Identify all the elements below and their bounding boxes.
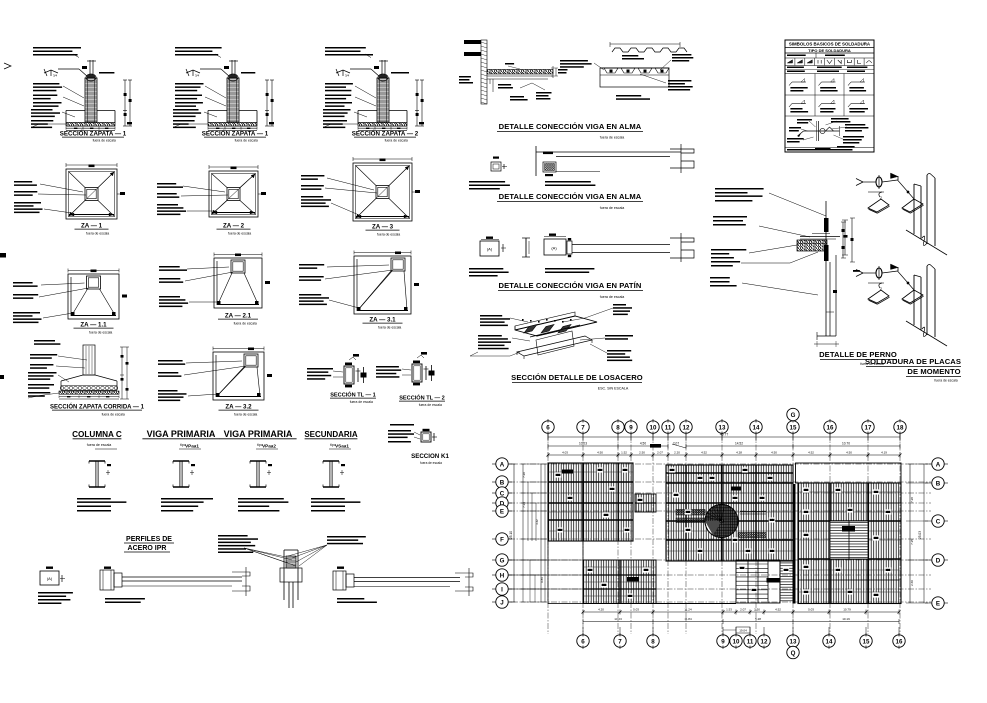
- svg-text:25.03: 25.03: [918, 531, 922, 539]
- svg-text:fuera de escala: fuera de escala: [377, 233, 400, 237]
- svg-text:3/4: 3/4: [195, 74, 200, 78]
- svg-text:SECCIÓN TL — 1: SECCIÓN TL — 1: [330, 391, 376, 399]
- svg-text:fuera de escala: fuera de escala: [420, 461, 442, 465]
- plate diamonds lower: [868, 290, 889, 303]
- svg-text:fuera de escala: fuera de escala: [228, 232, 251, 236]
- weld example cells: [814, 74, 816, 96]
- section VIGA PRIMARIA VPaa2: [219, 429, 296, 512]
- svg-text:10: 10: [650, 425, 657, 432]
- svg-text:J: J: [500, 600, 504, 607]
- svg-text:16: 16: [896, 639, 903, 646]
- column detail with welded plates: [218, 535, 366, 608]
- right dimension lines: [906, 464, 928, 603]
- black beam mark central: [731, 487, 741, 491]
- column of SECCIÓN ZAPATA — 1: [227, 78, 239, 122]
- stair landing bands left of circle: [676, 510, 705, 516]
- detail SECCIÓN TL — 2: [376, 352, 445, 407]
- annotations of ZA — 2: [157, 183, 176, 185]
- svg-text:14.52: 14.52: [735, 442, 743, 446]
- seccion zapata detail SECCIÓN ZAPATA — 1: [173, 47, 274, 143]
- svg-text:4.19: 4.19: [881, 451, 887, 455]
- svg-text:3.42: 3.42: [535, 519, 539, 525]
- svg-text:6: 6: [581, 639, 585, 646]
- zapata plan ZA — 3.1: [299, 251, 419, 330]
- svg-text:15: 15: [790, 425, 797, 432]
- spec text VPaa2: [238, 498, 284, 500]
- svg-text:1.53: 1.53: [726, 608, 732, 612]
- column vertical line: [825, 201, 827, 336]
- spec text VSaa1: [311, 498, 345, 500]
- weld symbol cells: [784, 58, 786, 66]
- annotations of ZA — 3: [301, 175, 324, 177]
- svg-text:45.77: 45.77: [720, 433, 729, 437]
- svg-text:ZA — 2: ZA — 2: [223, 223, 245, 230]
- bolt lower shank: [829, 262, 831, 336]
- annotations of SECCIÓN ZAPATA — 2: [325, 83, 353, 85]
- svg-text:F: F: [500, 537, 504, 544]
- svg-text:(A): (A): [551, 246, 557, 251]
- svg-text:5.03: 5.03: [808, 608, 814, 612]
- base plate: [797, 240, 827, 251]
- svg-text:4.28: 4.28: [736, 451, 742, 455]
- svg-text:1.52: 1.52: [621, 451, 627, 455]
- annotations of ZA — 2.1: [159, 266, 180, 268]
- svg-text:10: 10: [733, 639, 740, 646]
- zapata plan ZA — 3.2: [158, 347, 272, 417]
- svg-text:fuera de escala: fuera de escala: [234, 413, 257, 417]
- plate diamonds upper: [868, 199, 889, 212]
- svg-text:12: 12: [683, 425, 690, 432]
- beam mark black bar left block: [562, 470, 573, 474]
- svg-text:COLUMNA C: COLUMNA C: [72, 430, 122, 439]
- svg-text:7.20: 7.20: [522, 472, 526, 478]
- svg-text:VSaa1: VSaa1: [335, 444, 349, 449]
- spec text VPaa1: [161, 498, 213, 500]
- svg-text:14.23: 14.23: [614, 617, 622, 621]
- svg-text:D: D: [936, 558, 941, 565]
- svg-text:6: 6: [546, 425, 550, 432]
- break line upper: [906, 230, 947, 255]
- svg-text:fuera de escala: fuera de escala: [86, 232, 109, 236]
- svg-text:12: 12: [761, 639, 768, 646]
- seccion detalle de losacero isometric: [470, 304, 643, 391]
- svg-text:ZA — 1: ZA — 1: [81, 223, 103, 230]
- svg-text:H: H: [500, 573, 505, 580]
- svg-text:14: 14: [826, 639, 833, 646]
- svg-text:ZA — 3: ZA — 3: [372, 224, 394, 231]
- losacero deck section: [600, 67, 669, 69]
- svg-text:7: 7: [618, 639, 622, 646]
- framing plan: [492, 408, 948, 658]
- I-beam symbol: [89, 460, 105, 462]
- seccion zapata corrida 1: [28, 340, 145, 417]
- svg-text:4.52: 4.52: [701, 451, 707, 455]
- title soldadura de placas de momento: [865, 357, 961, 383]
- svg-text:fuera de escala: fuera de escala: [89, 331, 112, 335]
- sheet edge marks: [0, 253, 6, 258]
- svg-text:4.52: 4.52: [808, 451, 814, 455]
- svg-text:2.60: 2.60: [910, 580, 914, 586]
- stair opening right block: [830, 521, 868, 559]
- svg-text:4.50: 4.50: [597, 451, 603, 455]
- dimension lines of SECCIÓN ZAPATA — 2: [416, 80, 418, 126]
- soldadura placas isometric lower: [853, 264, 947, 346]
- dim bracket: [842, 220, 848, 255]
- section VIGA PRIMARIA VPaa1: [142, 429, 219, 512]
- svg-text:fuera de escala: fuera de escala: [235, 139, 258, 143]
- svg-text:fuera de escala: fuera de escala: [934, 379, 957, 383]
- beam under losacero: [527, 325, 583, 357]
- svg-text:A: A: [936, 462, 941, 469]
- svg-text:SIMBOLOS BASICOS DE SOLDADURA: SIMBOLOS BASICOS DE SOLDADURA: [789, 42, 871, 47]
- svg-text:3/4: 3/4: [345, 74, 350, 78]
- grid bubbles bottom: [577, 627, 905, 659]
- seccion zapata detail SECCIÓN ZAPATA — 1: [31, 47, 132, 143]
- svg-text:DETALLE CONECCIÓN VIGA EN ALMA: DETALLE CONECCIÓN VIGA EN ALMA: [499, 192, 642, 201]
- left corridor outline: [548, 541, 583, 604]
- column of SECCIÓN ZAPATA — 2: [377, 78, 389, 122]
- I-beam symbol VPaa2: [250, 460, 266, 462]
- svg-text:PERFILES DE: PERFILES DE: [126, 536, 172, 543]
- detail seccion K1: [388, 424, 449, 465]
- svg-text:E: E: [936, 601, 940, 608]
- stair band right of circle: [738, 533, 766, 538]
- dim line below hook: [814, 343, 839, 345]
- svg-text:VPaa2: VPaa2: [262, 444, 276, 449]
- svg-text:A: A: [500, 462, 505, 469]
- left floor block: [548, 463, 633, 541]
- svg-text:B: B: [936, 481, 941, 488]
- svg-text:10.79: 10.79: [843, 608, 851, 612]
- svg-text:10.70: 10.70: [842, 442, 850, 446]
- svg-text:fuera de escala: fuera de escala: [87, 443, 112, 447]
- svg-text:fuera de escala: fuera de escala: [378, 326, 401, 330]
- svg-text:4.50: 4.50: [846, 451, 852, 455]
- svg-text:ZA — 3.2: ZA — 3.2: [225, 404, 252, 411]
- annotations of seccion zapata corrida: [30, 354, 57, 356]
- detail SECCIÓN TL — 1: [307, 354, 376, 404]
- svg-text:ESC. SIN ESCALA: ESC. SIN ESCALA: [598, 387, 629, 391]
- detalle de conexion de viga en alma (left): [100, 567, 250, 604]
- svg-text:4.20: 4.20: [598, 608, 604, 612]
- central floor block: [666, 465, 793, 561]
- dimension lines of SECCIÓN ZAPATA — 1: [266, 80, 268, 126]
- spec text: [77, 498, 111, 500]
- svg-text:fuera de escala: fuera de escala: [350, 400, 373, 404]
- section COLUMNA C: [72, 430, 126, 512]
- I-beam symbol VPaa1: [173, 460, 189, 462]
- svg-text:fuera de escala: fuera de escala: [385, 139, 408, 143]
- svg-text:SECCIÓN DETALLE DE LOSACERO: SECCIÓN DETALLE DE LOSACERO: [511, 373, 643, 382]
- svg-text:SECCIÓN ZAPATA — 1: SECCIÓN ZAPATA — 1: [202, 130, 269, 138]
- right floor block: [798, 483, 901, 604]
- svg-text:C: C: [936, 519, 941, 526]
- svg-text:2.07: 2.07: [673, 442, 679, 446]
- svg-text:fuera de escala: fuera de escala: [600, 206, 625, 210]
- svg-text:fuera de escala: fuera de escala: [419, 403, 442, 407]
- small connector slab: [635, 494, 656, 512]
- svg-text:13: 13: [719, 425, 726, 432]
- cadena rebar dots: [60, 386, 118, 390]
- annotations of SECCIÓN ZAPATA — 1: [175, 83, 204, 85]
- svg-text:11.24: 11.24: [684, 608, 692, 612]
- top strip right of wall: [796, 463, 902, 483]
- svg-text:ZA — 3.1: ZA — 3.1: [369, 317, 396, 324]
- left dimension lines: [509, 464, 547, 602]
- svg-text:ACERO IPR: ACERO IPR: [128, 545, 167, 552]
- svg-text:9: 9: [629, 425, 633, 432]
- svg-text:2.07: 2.07: [657, 451, 663, 455]
- svg-text:SECCIÓN ZAPATA CORRIDA — 1: SECCIÓN ZAPATA CORRIDA — 1: [50, 403, 145, 411]
- grid bubbles left: [492, 458, 512, 608]
- detalle de conexion de viga en alma (right): [333, 567, 473, 604]
- svg-text:VIGA PRIMARIA: VIGA PRIMARIA: [224, 429, 293, 439]
- svg-text:9: 9: [721, 639, 725, 646]
- svg-text:2.07: 2.07: [740, 608, 746, 612]
- svg-text:DETALLE CONECCIÓN VIGA EN PATÍ: DETALLE CONECCIÓN VIGA EN PATÍN: [499, 281, 642, 290]
- svg-text:I: I: [501, 587, 503, 594]
- svg-text:fuera de escala: fuera de escala: [93, 139, 116, 143]
- zapata plan ZA — 3: [301, 157, 420, 237]
- svg-text:8: 8: [616, 425, 620, 432]
- svg-text:DETALLE CONECCIÓN VIGA EN ALMA: DETALLE CONECCIÓN VIGA EN ALMA: [499, 122, 642, 131]
- svg-text:DE MOMENTO: DE MOMENTO: [907, 367, 960, 376]
- svg-text:SECCIÓN ZAPATA — 1: SECCIÓN ZAPATA — 1: [60, 130, 127, 138]
- svg-text:11.84: 11.84: [684, 617, 692, 621]
- break line lower: [906, 321, 947, 346]
- black mark right block: [842, 526, 855, 532]
- bottom dimension lines: [582, 608, 901, 634]
- detalle viga en alma drawing 2: [469, 144, 694, 210]
- svg-text:7: 7: [581, 425, 585, 432]
- svg-text:SECUNDARIA: SECUNDARIA: [304, 430, 358, 439]
- svg-text:fuera de escala: fuera de escala: [600, 136, 625, 140]
- svg-text:17: 17: [865, 425, 872, 432]
- svg-text:SECCIÓN TL — 2: SECCIÓN TL — 2: [399, 394, 445, 402]
- svg-text:G: G: [791, 412, 796, 419]
- svg-text:B: B: [500, 480, 505, 487]
- title perfiles de acero: [124, 536, 174, 552]
- svg-text:E: E: [500, 509, 504, 516]
- caption detalle losacero: [616, 95, 641, 97]
- svg-text:fuera de escala: fuera de escala: [600, 295, 625, 299]
- svg-text:2.20: 2.20: [674, 451, 680, 455]
- annotations of ZA — 1.1: [13, 282, 33, 284]
- footing of SECCIÓN ZAPATA — 1: [66, 110, 85, 112]
- annotations of SECCIÓN ZAPATA — 1: [33, 83, 59, 85]
- bottom-left floor block: [583, 560, 656, 604]
- svg-text:14: 14: [753, 425, 760, 432]
- svg-text:25.10: 25.10: [509, 531, 513, 539]
- beam labels speckle: [555, 467, 891, 598]
- footing of SECCIÓN ZAPATA — 2: [358, 110, 377, 112]
- anchor bolt: [824, 218, 829, 232]
- footing of SECCIÓN ZAPATA — 1: [208, 110, 227, 112]
- column iso lower: [913, 275, 915, 325]
- svg-text:VPaa1: VPaa1: [185, 444, 199, 449]
- svg-text:2.50: 2.50: [639, 451, 645, 455]
- svg-text:fuera de escala: fuera de escala: [234, 322, 257, 326]
- svg-text:SECCIÓN ZAPATA — 2: SECCIÓN ZAPATA — 2: [352, 130, 419, 138]
- grid bubbles top: [542, 408, 906, 441]
- zapata plan ZA — 1.1: [13, 269, 127, 335]
- spiral stair: [704, 504, 738, 538]
- seccion zapata detail SECCIÓN ZAPATA — 2: [323, 47, 424, 143]
- detalle losa-muro section: [459, 40, 568, 104]
- column of SECCIÓN ZAPATA — 1: [85, 78, 97, 122]
- thick wall line: [793, 484, 796, 604]
- svg-text:10.19: 10.19: [842, 617, 850, 621]
- svg-text:13: 13: [790, 639, 797, 646]
- zapata plan ZA — 1: [14, 163, 125, 236]
- bottom central white area outline: [656, 603, 736, 605]
- svg-text:7.28: 7.28: [910, 497, 914, 503]
- soldadura placas isometric upper: [856, 173, 947, 255]
- black mark bottom-left block: [627, 577, 639, 582]
- svg-text:(A): (A): [47, 576, 53, 581]
- svg-text:7.35: 7.35: [910, 539, 914, 545]
- grid bubbles right: [925, 458, 948, 609]
- right dim lines: [842, 222, 844, 258]
- top dimension lines: [547, 433, 902, 458]
- zapata plan ZA — 2: [157, 165, 266, 236]
- zapata plan ZA — 2.1: [159, 253, 270, 326]
- detalle viga en patin drawing: [469, 233, 694, 299]
- svg-text:15: 15: [863, 639, 870, 646]
- svg-text:SECCION K1: SECCION K1: [411, 453, 449, 460]
- svg-text:ZA — 1.1: ZA — 1.1: [80, 322, 107, 329]
- grid centerlines: [509, 434, 931, 634]
- svg-text:19.04: 19.04: [739, 629, 747, 633]
- svg-text:5.03: 5.03: [633, 608, 639, 612]
- beam lines at plate: [800, 236, 840, 238]
- svg-text:8: 8: [651, 639, 655, 646]
- svg-text:11: 11: [747, 639, 754, 646]
- svg-text:10.03: 10.03: [579, 442, 587, 446]
- svg-text:5.28: 5.28: [755, 617, 761, 621]
- svg-text:ZA — 2.1: ZA — 2.1: [225, 313, 252, 320]
- tabla simbolos basicos de soldadura: [785, 40, 874, 152]
- column iso upper: [913, 184, 915, 234]
- section SECUNDARIA VSaa1: [304, 430, 360, 512]
- svg-text:fuera de escala: fuera de escala: [102, 413, 125, 417]
- svg-text:4.03: 4.03: [562, 451, 568, 455]
- svg-text:4.52: 4.52: [775, 608, 781, 612]
- bottom-center stair block: [736, 560, 780, 603]
- weld nomenclature diagram: [818, 121, 820, 141]
- svg-text:4.50: 4.50: [771, 451, 777, 455]
- svg-text:3/4: 3/4: [53, 74, 58, 78]
- svg-text:2.50: 2.50: [754, 608, 760, 612]
- svg-text:TIPO DE SOLDADURA: TIPO DE SOLDADURA: [808, 48, 851, 53]
- svg-text:11: 11: [665, 425, 672, 432]
- svg-text:9.86: 9.86: [540, 577, 544, 583]
- dimension lines of SECCIÓN ZAPATA — 1: [124, 80, 126, 126]
- annotations of ZA — 3.1: [299, 264, 324, 266]
- title detalle coneccion viga en alma (1): [497, 122, 643, 140]
- detalle losacero plan: [560, 42, 693, 100]
- svg-text:SOLDADURA DE PLACAS: SOLDADURA DE PLACAS: [865, 357, 961, 366]
- svg-text:Q: Q: [791, 650, 796, 657]
- svg-text:G: G: [500, 558, 505, 565]
- svg-text:16: 16: [827, 425, 834, 432]
- svg-text:(A): (A): [487, 247, 493, 252]
- I-beam symbol VSaa1: [323, 460, 339, 462]
- svg-text:4.50: 4.50: [640, 442, 646, 446]
- svg-text:VIGA PRIMARIA: VIGA PRIMARIA: [147, 429, 216, 439]
- svg-text:18: 18: [897, 425, 904, 432]
- detalle de perno drawing: [710, 188, 897, 366]
- svg-text:7.33: 7.33: [522, 502, 526, 508]
- detail placa de acero (A): [38, 567, 73, 605]
- annotations of ZA — 3.2: [158, 360, 183, 362]
- annotations of ZA — 1: [14, 181, 32, 183]
